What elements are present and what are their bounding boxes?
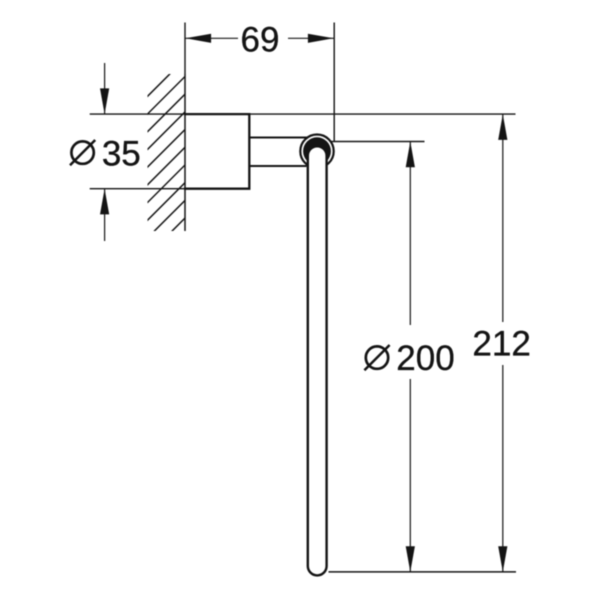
svg-text:200: 200 — [396, 339, 454, 378]
svg-text:69: 69 — [241, 21, 280, 60]
svg-text:35: 35 — [102, 135, 141, 174]
svg-text:212: 212 — [472, 324, 530, 363]
